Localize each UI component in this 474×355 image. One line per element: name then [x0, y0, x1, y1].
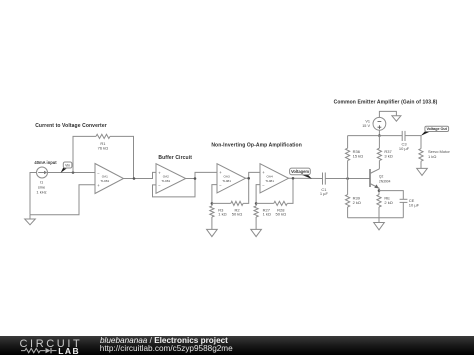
- wire R39 to bottom rail: [347, 207, 349, 218]
- wire OA2 output: [186, 172, 217, 178]
- label C3 10 uF: [399, 142, 410, 151]
- svg-text:15 V: 15 V: [362, 124, 370, 128]
- op-amp OA4: [260, 164, 289, 193]
- resistor R3: [210, 206, 214, 217]
- label R36 15 kOhm: [353, 149, 364, 159]
- svg-text:OA3: OA3: [223, 175, 229, 179]
- wire rail to R36: [347, 136, 349, 149]
- ground (V1): [392, 116, 401, 121]
- wire node to servo resistor: [420, 136, 422, 149]
- svg-text:TL081: TL081: [222, 179, 231, 183]
- label RE 2 kOhm: [384, 196, 392, 206]
- wire feedback left leg: [73, 136, 96, 172]
- svg-text:2 kΩ: 2 kΩ: [353, 200, 361, 205]
- resistor R37: [377, 148, 381, 160]
- wire OA1 output: [124, 172, 157, 178]
- svg-text:1 kΩ: 1 kΩ: [218, 212, 226, 217]
- svg-text:V1: V1: [365, 119, 370, 123]
- wire rail to ground: [378, 218, 380, 223]
- resistor Servo Motor: [419, 149, 423, 162]
- svg-text:10 µF: 10 µF: [409, 202, 420, 207]
- current source I1: [37, 167, 48, 178]
- label R39 2 kOhm: [353, 196, 361, 206]
- node Voltage Out flag: [421, 126, 449, 136]
- label V1 15 V: [362, 119, 370, 128]
- wire R36 to base node: [347, 161, 349, 179]
- junction OA4 out: [292, 177, 295, 180]
- junction OA3 out: [247, 177, 250, 180]
- svg-text:50 kΩ: 50 kΩ: [276, 212, 287, 217]
- svg-text:Q2: Q2: [379, 174, 384, 178]
- wire R37 to collector: [378, 161, 380, 169]
- svg-text:OA4: OA4: [266, 175, 272, 179]
- wire V1 bottom to rail: [378, 130, 380, 135]
- wire OA3 - input leg: [212, 185, 217, 206]
- wire I1 left to ground rail: [30, 173, 37, 215]
- svg-text:3 kΩ: 3 kΩ: [384, 154, 392, 159]
- label R37 3 kOhm: [384, 149, 392, 159]
- svg-text:15 kΩ: 15 kΩ: [353, 154, 364, 159]
- resistor R36: [346, 148, 350, 160]
- ground (CE stage): [374, 223, 385, 230]
- label I1 sine 1 kHz: [36, 179, 46, 194]
- wire R3 to ground: [211, 217, 213, 229]
- svg-text:40mA input: 40mA input: [34, 160, 57, 165]
- wire rail to R37: [378, 136, 380, 149]
- junction emitter node: [378, 189, 381, 192]
- junction R3/R2 node: [211, 202, 214, 205]
- svg-text:OA2: OA2: [163, 175, 169, 179]
- ground (section 1): [25, 215, 36, 225]
- label CE 10 uF: [409, 198, 420, 207]
- label Q2 2N3904: [379, 174, 391, 183]
- wire R28 to OA4 out: [287, 178, 293, 203]
- wire servo to ground: [420, 161, 422, 168]
- junction V1 rail: [378, 134, 381, 137]
- wire OA4 output to C1: [289, 177, 323, 179]
- logo resistor zigzag: [21, 348, 45, 352]
- wire OA4 - input leg: [256, 185, 260, 206]
- svg-text:1 kΩ: 1 kΩ: [263, 212, 271, 217]
- wire V1 top to ground: [379, 111, 396, 117]
- wire node to R28: [256, 202, 274, 204]
- svg-text:1 kHz: 1 kHz: [36, 190, 46, 195]
- svg-text:Vin: Vin: [65, 164, 70, 168]
- ground (R3): [207, 229, 218, 236]
- junction R27/R28 node: [255, 202, 258, 205]
- svg-text:2 kΩ: 2 kΩ: [384, 200, 392, 205]
- wire bottom rail: [348, 217, 404, 219]
- node Vin flag: [61, 162, 72, 173]
- wire I1 right to OA1 - input: [48, 172, 96, 174]
- op-amp OA3: [217, 164, 246, 193]
- transistor Q2: [370, 169, 379, 195]
- svg-text:1 µF: 1 µF: [320, 191, 329, 196]
- wire CE to bottom rail: [402, 202, 404, 217]
- wire C1 to base: [325, 178, 370, 180]
- junction base node: [346, 177, 349, 180]
- wire OA2 feedback: [153, 179, 196, 197]
- svg-text:Current to Voltage Converter: Current to Voltage Converter: [35, 123, 107, 129]
- capacitor C1: [323, 173, 326, 185]
- resistor R28: [274, 201, 287, 205]
- logo diode symbol: [46, 348, 57, 353]
- label R3 1 kOhm: [218, 208, 226, 217]
- svg-text:Voltage Out: Voltage Out: [426, 127, 447, 131]
- svg-text:76 kΩ: 76 kΩ: [98, 145, 109, 150]
- wire OA3 output: [246, 172, 261, 178]
- svg-text:TL081: TL081: [265, 179, 274, 183]
- svg-text:10 µF: 10 µF: [399, 146, 410, 151]
- wire emitter to CE branch: [379, 191, 403, 200]
- voltage source V1: [373, 117, 386, 130]
- footer bar: [0, 336, 474, 355]
- label R27 1 kOhm: [263, 208, 271, 217]
- resistor R39: [346, 195, 350, 207]
- svg-text:OA1: OA1: [102, 175, 108, 179]
- wire base node to R39: [347, 179, 349, 195]
- capacitor C3: [402, 131, 405, 141]
- capacitor CE: [400, 199, 408, 202]
- resistor RE: [377, 195, 381, 207]
- label R28 50 kOhm: [276, 208, 287, 217]
- svg-text:LAB: LAB: [58, 346, 80, 355]
- junction at Vin node: [72, 171, 75, 174]
- svg-text:1 kΩ: 1 kΩ: [428, 154, 436, 159]
- wire node to R2: [212, 202, 231, 204]
- svg-text:TL081: TL081: [100, 179, 109, 183]
- svg-text:50 kΩ: 50 kΩ: [232, 212, 243, 217]
- resistor R27: [254, 206, 258, 217]
- svg-text:Non-Inverting Op-Amp Amplifica: Non-Inverting Op-Amp Amplification: [211, 143, 302, 149]
- resistor R2: [231, 201, 243, 205]
- wire R27 to ground: [255, 217, 257, 229]
- ground (servo): [417, 168, 428, 175]
- resistor R1: [96, 134, 110, 138]
- wire feedback right leg: [110, 136, 134, 178]
- ground (R27): [251, 229, 262, 236]
- op-amp OA1: [95, 164, 124, 194]
- label R1 76 kOhm: [98, 141, 109, 151]
- svg-text:Buffer Circuit: Buffer Circuit: [158, 155, 192, 161]
- label R2 50 kOhm: [232, 208, 243, 217]
- wire RE to bottom rail: [378, 207, 380, 218]
- svg-text:http://circuitlab.com/c5zyp958: http://circuitlab.com/c5zyp9588g2me: [100, 344, 233, 353]
- junction OA2 out: [194, 177, 197, 180]
- label C1 1 uF: [320, 187, 329, 196]
- svg-text:TL081: TL081: [161, 179, 170, 183]
- svg-text:Voltagem: Voltagem: [291, 169, 309, 174]
- wire top rail: [348, 135, 403, 137]
- label Servo Motor 1 kOhm: [428, 149, 450, 159]
- svg-text:Common Emitter Amplifier (Gain: Common Emitter Amplifier (Gain of 103.8): [334, 99, 438, 105]
- op-amp OA2: [156, 164, 186, 194]
- node Voltagem flag: [290, 168, 312, 179]
- wire bottom rail to OA1 + input: [30, 185, 95, 215]
- svg-text:2N3904: 2N3904: [379, 179, 391, 183]
- wire C3 to output node: [405, 135, 421, 137]
- wire R2 to OA3 out: [243, 178, 249, 203]
- junction OA1 out: [133, 177, 136, 180]
